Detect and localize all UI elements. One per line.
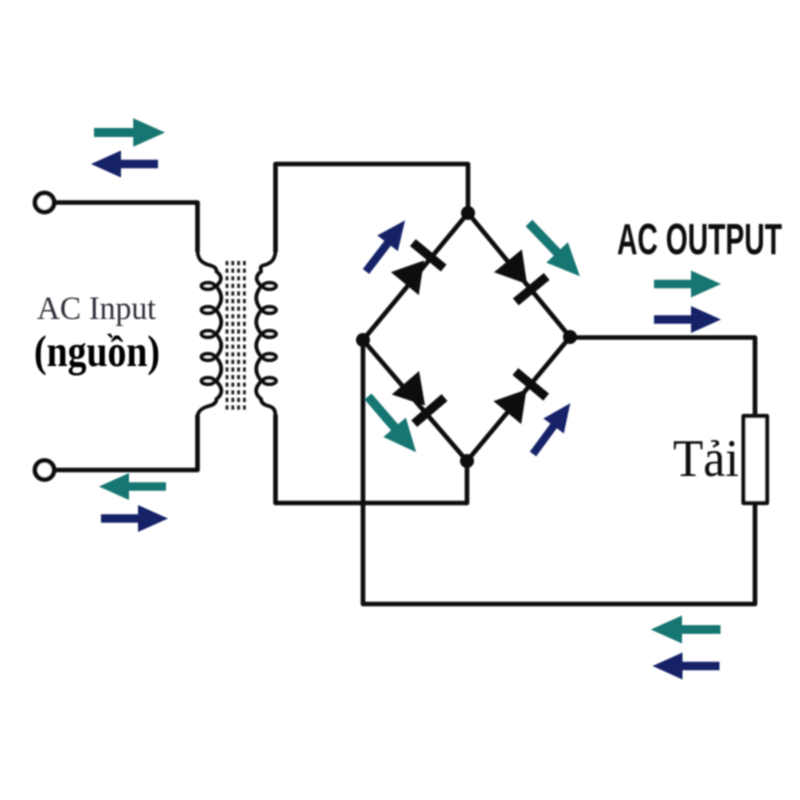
- svg-text:Tải: Tải: [673, 430, 739, 488]
- svg-text:(nguồn): (nguồn): [34, 327, 160, 376]
- svg-text:AC OUTPUT: AC OUTPUT: [617, 216, 782, 264]
- svg-text:AC Input: AC Input: [37, 291, 156, 327]
